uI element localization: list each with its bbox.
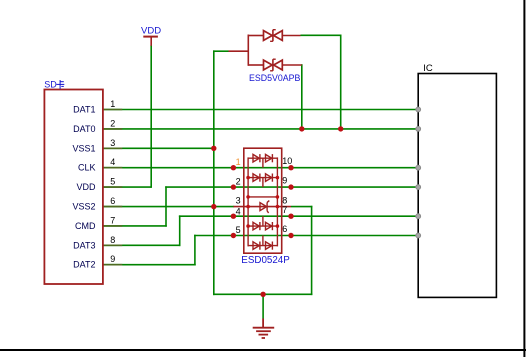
wire VSS1 row3 SD to ground vertical bbox=[103, 147, 214, 149]
ESD0524P row E pair diodes bbox=[248, 236, 277, 250]
wire DAT3 vertical jog bbox=[179, 215, 181, 246]
svg-text:VSS2: VSS2 bbox=[72, 202, 95, 212]
svg-text:5: 5 bbox=[236, 225, 241, 235]
TVS left vertical bbox=[247, 35, 249, 66]
ESD0524P row A pair diodes bbox=[248, 154, 277, 168]
ESD0524P middle TVS diode bbox=[260, 201, 269, 213]
wire VDD row5 SD to VDD stem corner bbox=[103, 186, 151, 188]
wire DAT2 horizontal to ESD pin5 and on to IC bbox=[194, 235, 418, 237]
ESD0524P row B pair diodes bbox=[248, 174, 277, 188]
svg-text:ESD0524P: ESD0524P bbox=[241, 255, 290, 266]
svg-text:7: 7 bbox=[282, 205, 287, 215]
TVS diode D2 bottom bbox=[248, 59, 301, 71]
wire CMD horizontal to ESD pin2 and on to IC bbox=[165, 186, 418, 188]
svg-text:VSS1: VSS1 bbox=[72, 143, 95, 153]
svg-text:3: 3 bbox=[110, 138, 115, 148]
svg-text:8: 8 bbox=[110, 235, 115, 245]
ESD0524P right rail bbox=[276, 157, 278, 246]
wire TVS top output horizontal bbox=[301, 34, 342, 36]
junction dot row2 x302 bbox=[299, 126, 304, 131]
component SD card box bbox=[44, 90, 103, 285]
wire VDD vertical stem bbox=[150, 45, 152, 188]
wire CMD row7 from SD bbox=[103, 225, 167, 227]
ground symbol bbox=[253, 319, 275, 339]
junction dot VSS2 ground bbox=[211, 204, 216, 209]
wire DAT2 row9 from SD bbox=[103, 264, 196, 266]
svg-text:DAT0: DAT0 bbox=[73, 124, 95, 134]
svg-text:DAT3: DAT3 bbox=[73, 240, 95, 250]
junction dot ground tap bbox=[260, 292, 265, 297]
svg-text:4: 4 bbox=[110, 157, 115, 167]
wire TVS bottom output vertical to DAT0 bbox=[301, 64, 303, 130]
svg-text:6: 6 bbox=[110, 196, 115, 206]
svg-text:9: 9 bbox=[110, 254, 115, 264]
svg-text:2: 2 bbox=[110, 118, 115, 128]
junction dot ESD pin9 bbox=[288, 184, 293, 189]
TVS left lead bbox=[229, 50, 249, 52]
svg-text:3: 3 bbox=[236, 196, 241, 206]
wire ground stem bbox=[262, 294, 264, 319]
svg-text:1: 1 bbox=[110, 99, 115, 109]
junction dot VSS1 ground bbox=[211, 146, 216, 151]
wire TVS left tap bbox=[213, 50, 229, 52]
ESD0524P left rail bbox=[247, 157, 249, 246]
wire ESD pin8 vertical to ground bbox=[311, 206, 313, 295]
svg-text:2: 2 bbox=[236, 177, 241, 187]
svg-text:1: 1 bbox=[236, 157, 241, 167]
svg-text:5: 5 bbox=[110, 177, 115, 187]
ESD0524P row D pair diodes bbox=[248, 216, 277, 230]
wire VSS2 row6 SD to ESD pin3 bbox=[103, 206, 234, 208]
svg-text:ESD5V0APB: ESD5V0APB bbox=[249, 73, 300, 83]
svg-text:DAT1: DAT1 bbox=[73, 105, 95, 115]
sheet border bottom edge bbox=[0, 349, 526, 351]
wire DAT0 row2 SD to IC bbox=[103, 128, 418, 130]
junction dot ESD pin6 bbox=[288, 233, 293, 238]
svg-text:6: 6 bbox=[282, 224, 287, 234]
svg-text:8: 8 bbox=[282, 196, 287, 206]
wire DAT3 row8 from SD bbox=[103, 244, 181, 246]
svg-text:CMD: CMD bbox=[75, 221, 96, 231]
wire CLK row4 SD through ESD0524P to IC bbox=[103, 167, 418, 169]
TVS array ESD5V0APB bbox=[229, 30, 302, 83]
IC pin connection rings bbox=[416, 107, 421, 238]
wire TVS top output vertical to DAT0 bbox=[340, 35, 342, 130]
svg-text:DAT2: DAT2 bbox=[73, 260, 95, 270]
wire CMD vertical jog bbox=[165, 186, 167, 226]
junction dot ESD pin5 bbox=[231, 233, 236, 238]
svg-text:7: 7 bbox=[110, 215, 115, 225]
ESD0524P internal junction dots bbox=[246, 176, 279, 228]
TVS diode D1 top bbox=[248, 30, 300, 42]
svg-text:10: 10 bbox=[282, 156, 292, 166]
wire ground net vertical bbox=[213, 50, 215, 295]
junction dot ESD pin10 bbox=[288, 165, 293, 170]
ESD0524P box bbox=[244, 148, 282, 253]
ESD0524P crossbar bbox=[248, 196, 277, 198]
svg-text:4: 4 bbox=[236, 207, 241, 217]
junction dot row2 x341 bbox=[338, 126, 343, 131]
junction dot ESD pin4 bbox=[231, 214, 236, 219]
power symbol VDD bbox=[141, 26, 161, 46]
component IC box bbox=[418, 74, 496, 298]
svg-text:CLK: CLK bbox=[78, 163, 96, 173]
pin stub overlays SD card pins 1-9 bbox=[103, 110, 122, 265]
diode array ESD0524P bbox=[233, 148, 292, 266]
junction dot ESD pin2 bbox=[231, 184, 236, 189]
wire DAT2 vertical jog bbox=[194, 235, 196, 266]
junction dot ESD pin1 bbox=[231, 165, 236, 170]
wire ESD pin8 horizontal bbox=[291, 206, 312, 208]
svg-text:VDD: VDD bbox=[141, 26, 161, 37]
wire DAT3 horizontal to ESD pin4 and on to IC bbox=[179, 215, 418, 217]
designator SD卡 bbox=[44, 80, 64, 90]
ESD0524P pin3 row C line through box bbox=[233, 206, 291, 208]
svg-text:SD: SD bbox=[44, 80, 57, 90]
wire ground net bottom horizontal bbox=[213, 293, 312, 295]
svg-text:IC: IC bbox=[423, 63, 433, 74]
wire DAT1 row1 SD to IC bbox=[103, 109, 418, 111]
svg-text:VDD: VDD bbox=[76, 182, 96, 192]
svg-text:9: 9 bbox=[282, 176, 287, 186]
junction dot ESD pin7 bbox=[288, 214, 293, 219]
sheet border right edge bbox=[523, 0, 525, 357]
